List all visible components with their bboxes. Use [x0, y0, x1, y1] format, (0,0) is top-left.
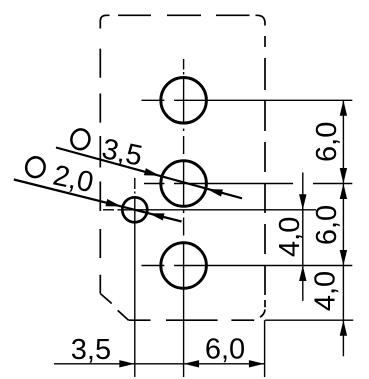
extension line below hole 3 to bottom dimension — [183, 289, 185, 377]
arrow leader 2,0 at small hole lower-right — [148, 210, 165, 221]
hole 3 (bottom circle) — [161, 243, 207, 289]
arrow inner dim 4,0 down-pointing (outside) — [299, 194, 306, 210]
inner dimension line 4,0 — [302, 173, 304, 301]
svg-text:3,5: 3,5 — [99, 133, 145, 173]
small hole center cross + extension line to inner dimension — [118, 209, 317, 211]
arrow right dim 6,0 top down-pointing — [340, 168, 347, 184]
hole 3 horizontal centerline dash — [142, 265, 165, 267]
arrow bottom 6,0 left-pointing — [184, 360, 200, 367]
arrow leader 3,5 at hole 2 lower-right — [206, 185, 223, 196]
svg-text:4,0: 4,0 — [274, 217, 306, 257]
part outline bottom-left chamfer dashes — [100, 294, 128, 321]
arrow right dim 6,0 mid down-pointing — [340, 250, 347, 266]
svg-text:2,0: 2,0 — [50, 160, 96, 200]
svg-text:6,0: 6,0 — [311, 122, 343, 162]
arrow leader 2,0 at small hole upper-left — [105, 199, 122, 210]
leader diameter symbol for 3,5 — [70, 128, 92, 151]
leader line diameter 2,0 — [14, 180, 182, 222]
hole 2 horizontal centerline dash — [144, 183, 164, 185]
arrow right dim 6,0 mid up-pointing — [340, 184, 347, 200]
arrow leader 3,5 at hole 2 upper-left — [144, 168, 161, 179]
part outline right edge dashes — [264, 36, 266, 307]
hole 3 center cross + extension line to right dimension — [174, 265, 352, 267]
part outline top edge dashes — [118, 14, 250, 16]
small hole horizontal centerline dash — [103, 209, 114, 211]
part outline bottom edge dashes — [129, 319, 255, 321]
svg-text:4,0: 4,0 — [310, 271, 342, 311]
hole 1 center cross + extension line to right dimension — [174, 99, 352, 101]
arrow bottom 3,5 right-pointing — [119, 360, 135, 367]
part outline top-right corner — [256, 15, 266, 25]
hole 1 (top circle) — [161, 78, 207, 124]
svg-text:6,0: 6,0 — [311, 205, 343, 245]
part outline (dashed) top-left corner — [100, 15, 109, 28]
hole 2 center cross + extension line (broken at inner dim line) — [174, 183, 352, 185]
svg-text:3,5: 3,5 — [71, 334, 111, 366]
hole 1 horizontal centerline dash — [142, 99, 165, 101]
right outer dimension line — [342, 100, 344, 356]
arrow inner dim 4,0 up-pointing (outside) — [299, 266, 306, 282]
leader diameter symbol for 2,0 — [24, 156, 46, 179]
small hole vertical centerline dash — [134, 178, 136, 194]
arrow right dim 6,0 top up-pointing — [340, 100, 347, 116]
arrow right dim 4,0 bottom up-pointing (outside) — [340, 320, 347, 336]
leader line diameter 3,5 — [56, 148, 242, 199]
vertical centerline through holes (dash-dot segments) — [183, 59, 185, 288]
extension line right of outline bottom edge — [265, 319, 353, 321]
part outline left edge dashes — [99, 49, 101, 294]
extension line below outline right corner to bottom dimension — [264, 320, 266, 377]
small hole (circle) — [122, 197, 147, 222]
small hole vertical cross + extension line down to bottom dimension — [134, 197, 136, 378]
svg-text:6,0: 6,0 — [205, 334, 245, 366]
arrow bottom 6,0 right-pointing — [249, 360, 265, 367]
bottom dimension line — [54, 363, 264, 365]
part outline bottom-right corner — [260, 310, 265, 318]
hole 2 (middle circle) — [161, 161, 207, 207]
